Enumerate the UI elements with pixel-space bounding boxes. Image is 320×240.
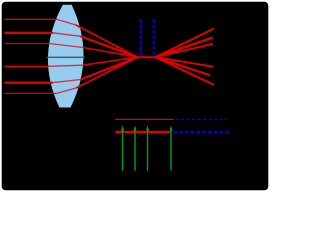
ray 4 in-lens segment bbox=[48, 65, 83, 66]
ray 2 incoming (top middle, thick) bbox=[5, 32, 54, 34]
lens L1 (biconvex, light blue) bbox=[48, 5, 84, 108]
ray 4 converging segment bbox=[83, 57, 138, 65]
ray 1 converging segment bbox=[76, 25, 138, 57]
ray 3 converging segment bbox=[83, 48, 138, 58]
diverging ray up3 bbox=[156, 44, 213, 57]
green arrow 3 bbox=[146, 125, 149, 170]
diverging ray up1 bbox=[156, 29, 215, 58]
diverging ray down1 bbox=[156, 57, 214, 84]
black rounded canvas bbox=[2, 2, 269, 191]
green arrow 2 bbox=[133, 125, 136, 170]
ray 1 incoming (top outer) bbox=[5, 18, 57, 20]
white page background bbox=[0, 0, 270, 192]
ray 2 in-lens segment bbox=[53, 33, 81, 37]
green arrow 4 bbox=[169, 125, 172, 170]
ray 3 incoming (top inner) bbox=[5, 43, 50, 45]
bottom: thin blue dashed continuation bbox=[176, 118, 228, 120]
ray 3 in-lens segment bbox=[49, 44, 83, 48]
ray 5 converging segment bbox=[81, 57, 138, 79]
focal waist line F1-F2 bbox=[138, 56, 156, 58]
bottom: thick blue dashed continuation bbox=[173, 131, 228, 133]
ray 6 in-lens segment bbox=[57, 88, 76, 93]
bottom: thick red level line bbox=[115, 131, 170, 133]
ray 4 incoming (bottom inner) bbox=[5, 65, 49, 67]
focal plane marker 2 (blue dashed) bbox=[153, 19, 155, 55]
ray 5 incoming (bottom middle, thick) bbox=[5, 81, 53, 83]
ray 6 converging segment bbox=[76, 57, 138, 88]
green arrow 1 bbox=[121, 125, 124, 170]
bottom: thin red level line bbox=[115, 118, 173, 120]
diverging ray down2 bbox=[156, 57, 211, 75]
diverging ray up2 bbox=[156, 38, 213, 58]
optical axis (visible across lens) bbox=[47, 56, 85, 58]
focal plane marker 1 (blue dashed) bbox=[140, 19, 142, 55]
ray 1 in-lens segment bbox=[57, 19, 76, 25]
ray 6 incoming (bottom outer) bbox=[5, 92, 57, 94]
ray 5 in-lens segment bbox=[53, 80, 81, 83]
ray 2 converging segment bbox=[81, 36, 138, 57]
diverging ray down3 bbox=[156, 57, 214, 66]
